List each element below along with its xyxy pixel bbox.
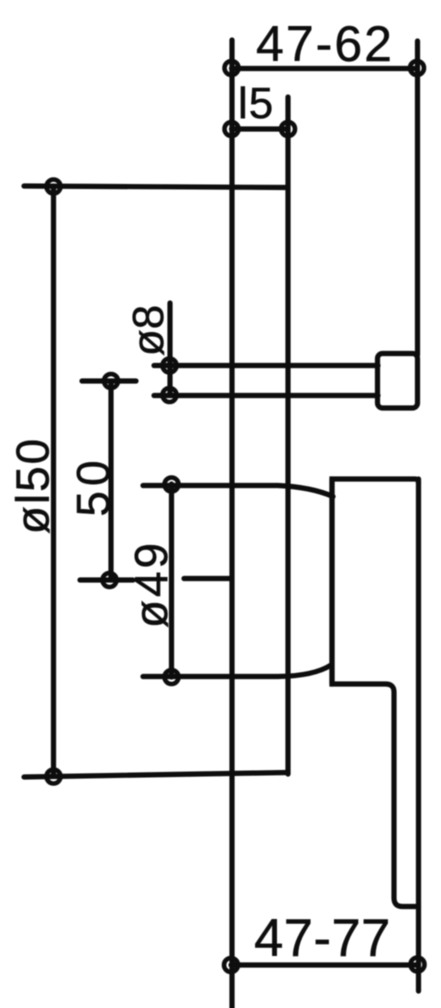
- svg-text:ø8: ø8: [124, 305, 173, 356]
- svg-text:øl50: øl50: [7, 437, 59, 534]
- svg-text:47-77: 47-77: [254, 909, 391, 968]
- svg-text:l5: l5: [238, 79, 274, 128]
- svg-text:47-62: 47-62: [256, 16, 394, 72]
- svg-text:50: 50: [67, 455, 119, 516]
- svg-text:ø49: ø49: [125, 540, 177, 628]
